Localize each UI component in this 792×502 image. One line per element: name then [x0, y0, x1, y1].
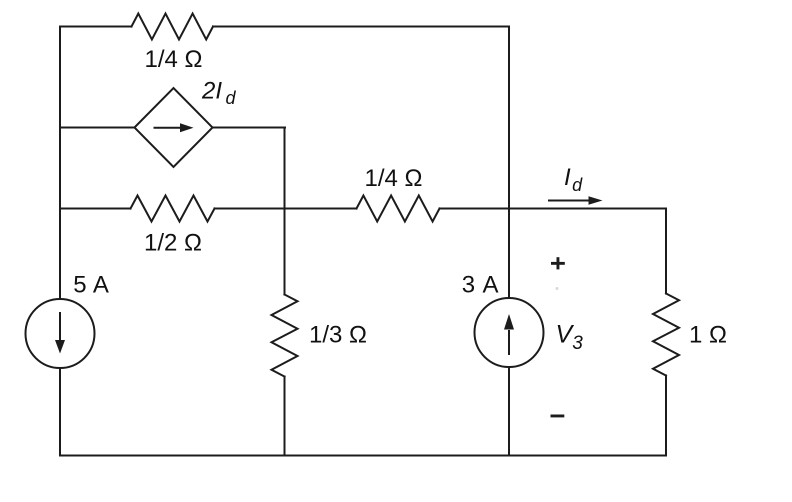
svg-text:1/4 Ω: 1/4 Ω [365, 165, 423, 192]
svg-text:2Id: 2Id [201, 77, 237, 108]
svg-text:5 A: 5 A [73, 272, 109, 299]
svg-text:1/3 Ω: 1/3 Ω [309, 322, 367, 349]
svg-text:1 Ω: 1 Ω [689, 322, 727, 349]
svg-text:3 A: 3 A [462, 271, 500, 298]
svg-text:1/4 Ω: 1/4 Ω [145, 46, 203, 73]
svg-text:V3: V3 [556, 321, 584, 355]
svg-text:1/2 Ω: 1/2 Ω [144, 230, 202, 257]
svg-text:Id: Id [564, 164, 583, 195]
